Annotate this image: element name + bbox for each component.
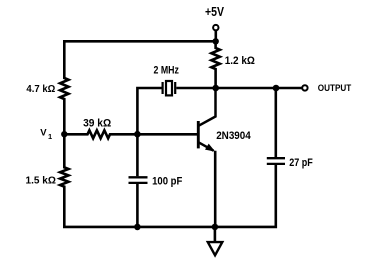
svg-text:4.7 kΩ: 4.7 kΩ	[26, 83, 55, 95]
svg-text:1.5 kΩ: 1.5 kΩ	[26, 175, 56, 187]
svg-text:OUTPUT: OUTPUT	[318, 83, 352, 93]
svg-text:V: V	[40, 128, 47, 139]
svg-text:100 pF: 100 pF	[152, 175, 183, 187]
svg-text:2 MHz: 2 MHz	[154, 64, 180, 76]
svg-text:39 kΩ: 39 kΩ	[83, 117, 111, 129]
svg-text:1.2 kΩ: 1.2 kΩ	[225, 55, 256, 67]
svg-text:2N3904: 2N3904	[216, 130, 251, 142]
svg-text:+5V: +5V	[205, 5, 225, 19]
svg-text:27 pF: 27 pF	[289, 157, 313, 169]
svg-text:1: 1	[48, 132, 52, 141]
